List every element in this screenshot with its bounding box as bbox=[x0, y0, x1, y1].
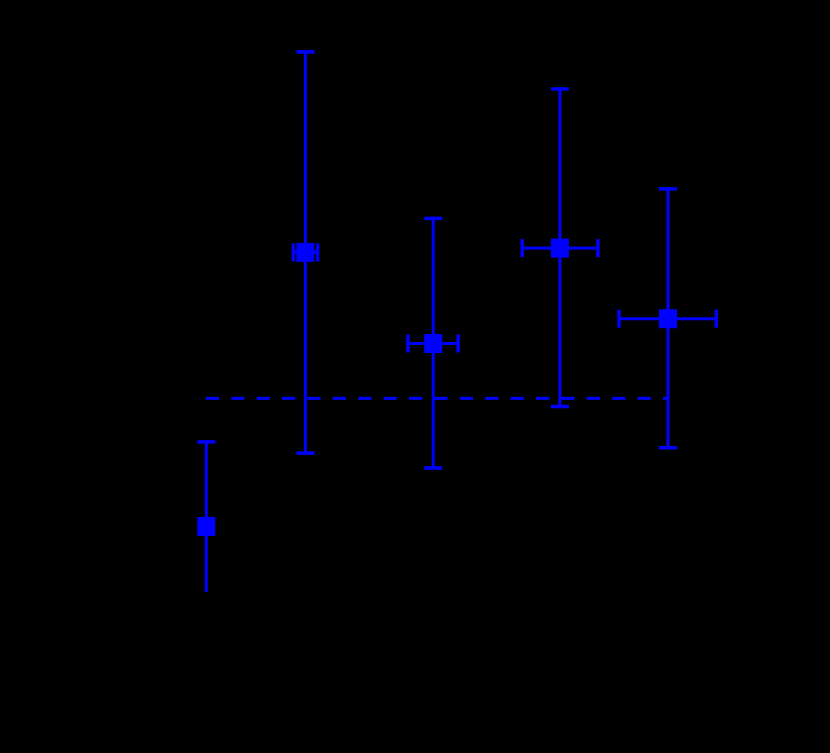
error bar point 5 bbox=[619, 189, 716, 448]
marker 5 bbox=[659, 309, 677, 328]
wire: horizontal error line 2 bbox=[293, 251, 317, 254]
left cap 4 bbox=[521, 239, 525, 257]
marker 2 bbox=[296, 243, 314, 262]
error bar point 4 bbox=[522, 89, 598, 407]
bottom cap 3 bbox=[424, 466, 442, 470]
wire: vertical error line 2 bbox=[304, 52, 307, 453]
right cap 3 bbox=[456, 335, 460, 353]
marker 4 bbox=[551, 239, 569, 258]
bottom cap 2 bbox=[296, 451, 314, 455]
left cap 5 bbox=[617, 310, 621, 328]
top cap 5 bbox=[659, 187, 677, 191]
dashed reference line bbox=[206, 397, 668, 400]
left cap 2 bbox=[292, 243, 296, 261]
bottom cap 4 bbox=[551, 405, 569, 409]
error bar point 3 bbox=[408, 218, 458, 468]
bottom cap 5 bbox=[659, 446, 677, 450]
right cap 4 bbox=[596, 239, 600, 257]
marker 3 bbox=[424, 334, 442, 353]
error bar point 2 bbox=[293, 52, 317, 453]
right cap 5 bbox=[715, 310, 719, 328]
wire: vertical error line 5 bbox=[667, 189, 670, 448]
wire: horizontal error line 5 bbox=[619, 317, 716, 320]
top cap 1 bbox=[197, 440, 215, 444]
top cap 4 bbox=[551, 87, 569, 91]
left cap 3 bbox=[406, 335, 410, 353]
error bar point 1 bbox=[197, 442, 215, 592]
wire: vertical error line 4 bbox=[558, 89, 561, 407]
marker 1 bbox=[197, 517, 215, 536]
wire: horizontal error line 3 bbox=[408, 342, 458, 345]
right cap 2 bbox=[316, 243, 320, 261]
wire: horizontal error line 4 bbox=[522, 247, 598, 250]
top cap 2 bbox=[296, 50, 314, 54]
top cap 3 bbox=[424, 217, 442, 221]
wire: vertical error line 1 bbox=[205, 442, 208, 592]
wire: vertical error line 3 bbox=[432, 218, 435, 468]
